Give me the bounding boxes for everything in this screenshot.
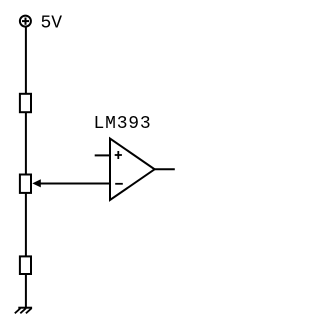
svg-text:5V: 5V <box>41 13 63 33</box>
svg-text:LM393: LM393 <box>94 114 152 134</box>
